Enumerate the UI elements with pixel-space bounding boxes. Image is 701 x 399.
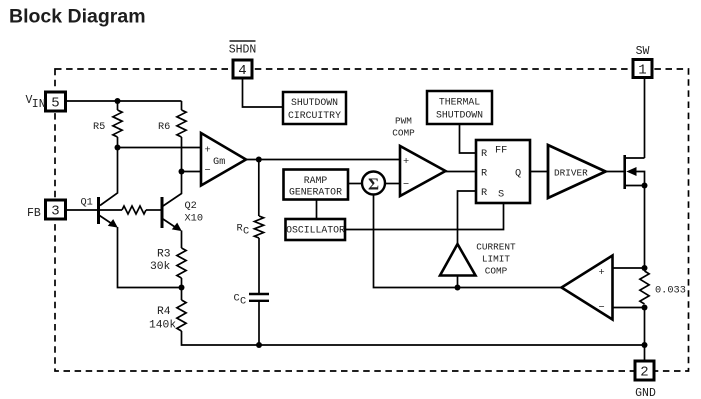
svg-text:S: S <box>498 189 504 201</box>
svg-text:SW: SW <box>636 45 650 58</box>
svg-text:R: R <box>481 148 487 160</box>
driver U DRIVER <box>548 145 606 198</box>
svg-text:C: C <box>240 296 246 308</box>
transistor Q3 power MOSFET <box>625 155 645 189</box>
flip-flop FF <box>476 140 530 203</box>
svg-text:SHUTDOWN: SHUTDOWN <box>436 110 483 121</box>
wire CC bottom to ground bus <box>258 301 260 345</box>
svg-text:CIRCUITRY: CIRCUITRY <box>288 110 341 121</box>
box SHUTDOWN CIRCUITRY <box>283 92 346 124</box>
box OSCILLATOR <box>286 219 346 240</box>
svg-text:THERMAL: THERMAL <box>439 97 480 108</box>
transistor Q1 <box>66 197 118 228</box>
pin 5 VIN <box>26 92 66 112</box>
svg-text:LIMIT: LIMIT <box>482 254 511 265</box>
svg-text:5: 5 <box>51 96 59 112</box>
wire PWM COMP output to FF R input <box>446 171 477 173</box>
wire RAMP GEN to summer <box>349 183 362 185</box>
wire current limit comp base to node <box>457 276 459 288</box>
node sense resistor top <box>642 265 648 271</box>
node R3 R4 junction <box>179 285 185 291</box>
wire sense comp + input <box>613 267 645 269</box>
svg-text:RAMP: RAMP <box>304 175 328 186</box>
svg-text:4: 4 <box>238 63 246 79</box>
node R5 top junction <box>115 98 121 104</box>
wire summer down to current limit node <box>374 195 562 288</box>
wire R3 bottom lead <box>181 278 183 288</box>
wire to Gm + input <box>118 147 202 149</box>
node CC ground junction <box>256 342 262 348</box>
transistor Q2 <box>162 197 203 231</box>
wire SHDN pin to shutdown circuitry <box>243 78 284 107</box>
svg-text:C: C <box>234 293 240 305</box>
wire compensation branch down <box>258 160 260 217</box>
box THERMAL SHUTDOWN <box>427 91 492 124</box>
wire Q2 emitter to R3 <box>181 231 183 249</box>
wire drain up to SW pin <box>644 77 646 158</box>
comparator CURRENT LIMIT COMP <box>440 242 516 277</box>
wire current limit comp to FF R input <box>458 191 477 244</box>
comparator PWM COMP <box>392 116 445 197</box>
svg-text:R: R <box>481 187 487 199</box>
svg-text:R4: R4 <box>157 306 171 318</box>
svg-text:Block Diagram: Block Diagram <box>9 6 146 28</box>
resistor R4 140k <box>149 300 186 332</box>
svg-text:GND: GND <box>635 387 656 399</box>
svg-text:OSCILLATOR: OSCILLATOR <box>286 225 345 236</box>
comparator current sense <box>562 256 613 320</box>
wire R5 top lead <box>117 101 119 110</box>
wire OSCILLATOR to FF S input <box>346 203 504 230</box>
svg-text:FF: FF <box>495 145 507 157</box>
svg-text:Gm: Gm <box>213 156 225 168</box>
wire R6 bottom to Q2 collector <box>163 137 182 206</box>
svg-text:+: + <box>205 145 211 157</box>
svg-text:COMP: COMP <box>392 128 415 139</box>
resistor R3 30k <box>150 248 186 278</box>
wire Q1 emitter down and to R3 bottom node <box>118 227 182 288</box>
svg-text:SHDN: SHDN <box>229 44 257 57</box>
wire to Gm - input <box>182 171 202 173</box>
svg-text:0.033: 0.033 <box>655 285 686 297</box>
node current limit junction <box>455 285 461 291</box>
wire Gm output to PWM + input <box>246 159 400 161</box>
summer sigma <box>362 172 385 195</box>
wire source down to sense resistor <box>644 186 646 269</box>
svg-text:Q1: Q1 <box>81 197 93 209</box>
capacitor CC <box>234 293 270 308</box>
svg-text:−: − <box>599 302 605 314</box>
pin 4 SHDN <box>229 41 257 79</box>
svg-text:DRIVER: DRIVER <box>554 168 588 179</box>
svg-text:COMP: COMP <box>485 266 508 277</box>
pin 3 FB <box>27 200 66 220</box>
node Gm output junction <box>256 157 262 163</box>
wire FF Q output to DRIVER <box>530 171 548 173</box>
svg-text:SHUTDOWN: SHUTDOWN <box>291 97 338 108</box>
svg-text:GENERATOR: GENERATOR <box>289 187 342 198</box>
wire VIN bus from pin 5 to R6 top <box>66 100 182 102</box>
wire DRIVER output to gate <box>606 171 624 173</box>
svg-text:Q: Q <box>515 168 521 180</box>
wire R4 top lead <box>181 288 183 301</box>
svg-text:R6: R6 <box>158 121 170 133</box>
resistor 0.033 <box>640 271 686 304</box>
svg-text:2: 2 <box>640 365 648 381</box>
svg-text:30k: 30k <box>150 261 171 273</box>
node ground bus right junction <box>642 342 648 348</box>
svg-text:C: C <box>243 226 249 238</box>
svg-text:Q2: Q2 <box>185 200 197 212</box>
svg-text:Σ: Σ <box>368 175 379 194</box>
svg-text:−: − <box>403 179 409 191</box>
svg-text:+: + <box>599 267 605 279</box>
resistor R5 <box>93 110 122 137</box>
IC boundary dashed box <box>55 69 689 371</box>
svg-text:PWM: PWM <box>395 116 412 127</box>
box RAMP GENERATOR <box>284 170 349 200</box>
node R5 bottom junction <box>115 145 121 151</box>
svg-text:R5: R5 <box>93 121 105 133</box>
svg-text:R3: R3 <box>157 249 171 261</box>
wire R5 node down to Q1 collector <box>100 148 118 206</box>
svg-text:IN: IN <box>32 98 46 111</box>
wire R5 bottom lead <box>117 137 119 148</box>
pin 2 GND <box>635 361 656 399</box>
svg-text:−: − <box>205 165 211 177</box>
wire sense comp - input <box>613 307 645 309</box>
svg-text:R: R <box>237 223 243 235</box>
resistor R6 <box>158 110 186 137</box>
svg-text:R: R <box>481 168 487 180</box>
svg-text:3: 3 <box>51 204 59 220</box>
svg-text:X10: X10 <box>185 213 204 225</box>
wire RC to CC <box>258 238 260 293</box>
svg-text:FB: FB <box>27 207 41 220</box>
pin 1 SW <box>633 45 652 79</box>
svg-text:CURRENT: CURRENT <box>476 242 516 253</box>
wire ground bus <box>182 331 645 345</box>
resistor base (between Q1 and Q2) <box>99 209 123 211</box>
resistor RC <box>237 216 264 238</box>
wire RAMP GEN to OSCILLATOR <box>316 200 318 219</box>
wire sense resistor to ground bus <box>644 308 646 362</box>
wire THERMAL SHUTDOWN to FF R input <box>460 124 477 153</box>
node MOSFET source junction <box>642 183 648 189</box>
svg-text:140k: 140k <box>149 320 176 332</box>
svg-text:+: + <box>403 156 409 168</box>
wire R6 top lead <box>181 101 183 110</box>
svg-text:1: 1 <box>638 63 646 79</box>
node Gm minus junction <box>179 169 185 175</box>
op-amp Gm <box>201 133 246 186</box>
wire summer to PWM - input <box>385 183 400 185</box>
node sense resistor bottom <box>642 305 648 311</box>
